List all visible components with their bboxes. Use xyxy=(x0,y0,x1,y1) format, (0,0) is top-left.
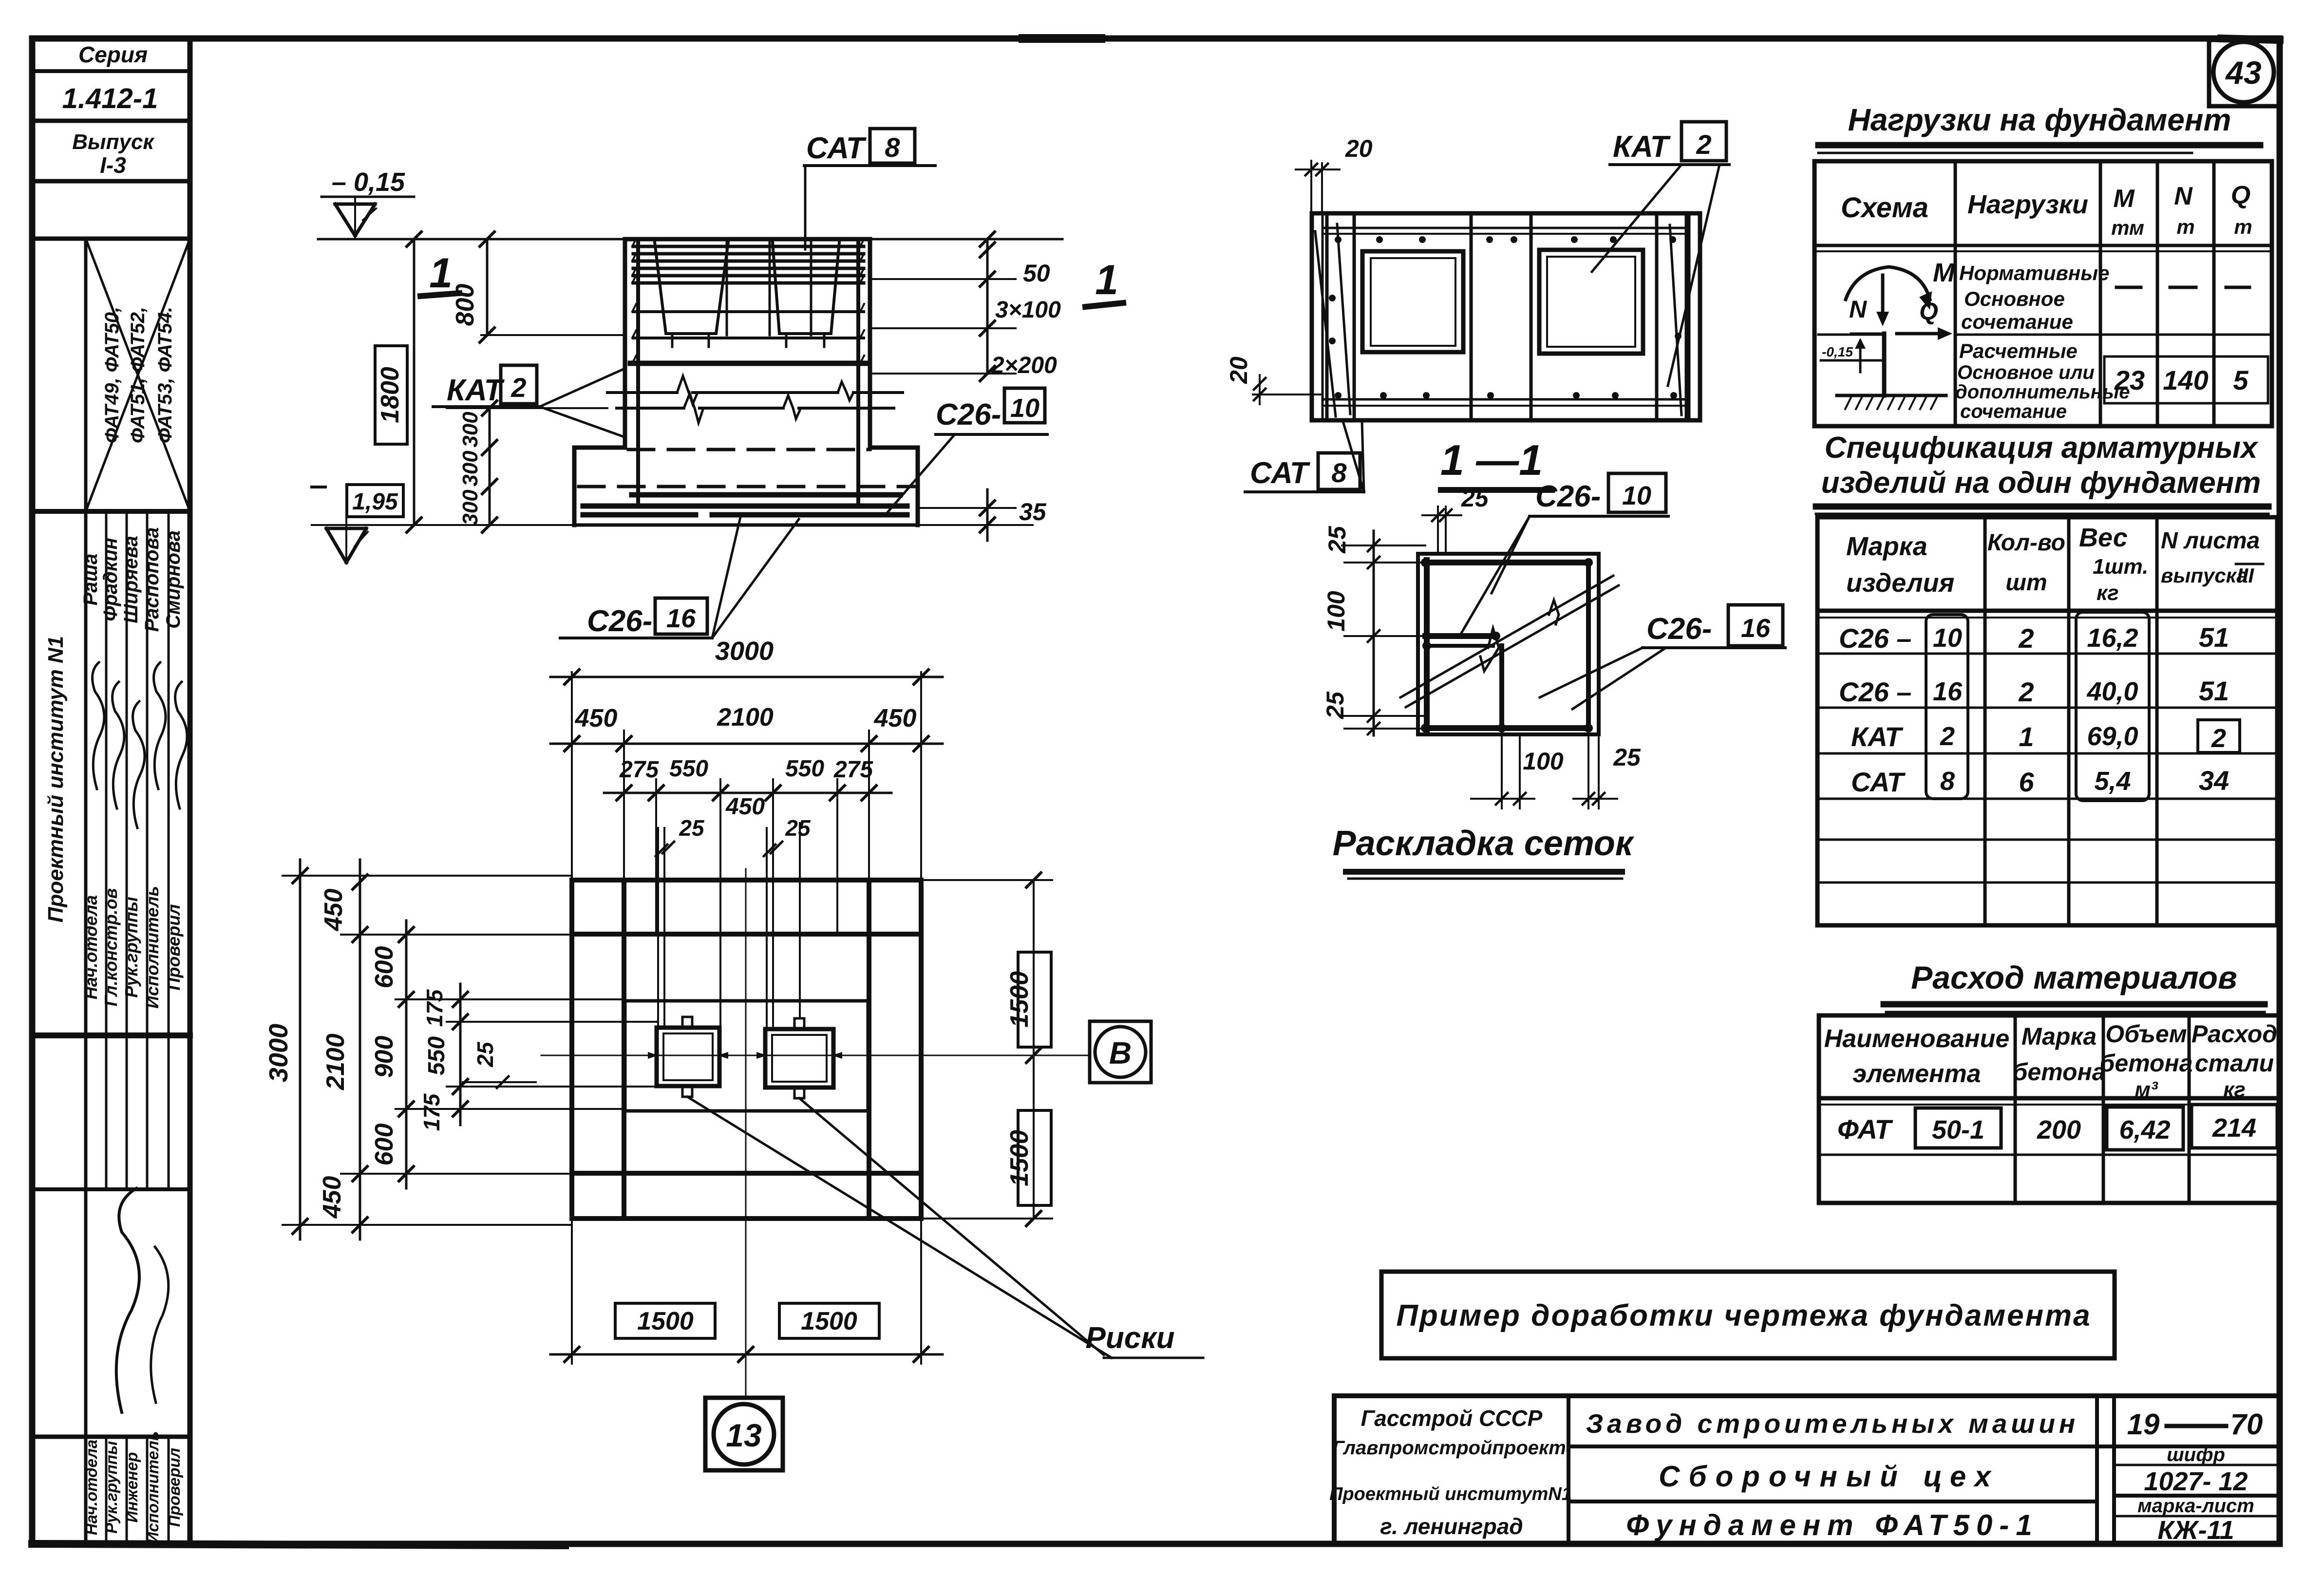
svg-text:1.412-1: 1.412-1 xyxy=(62,83,158,114)
svg-text:бетона: бетона xyxy=(2099,1050,2192,1077)
svg-text:Пример доработки чертежа фунда: Пример доработки чертежа фундамента xyxy=(1396,1299,2091,1332)
1-1 label KAT 2 xyxy=(1592,122,1729,386)
svg-text:Исполнитель: Исполнитель xyxy=(142,886,162,1009)
svg-text:214: 214 xyxy=(2212,1113,2256,1143)
detail left dims 25/100/25 xyxy=(1322,525,1427,735)
svg-text:I-3: I-3 xyxy=(100,152,126,178)
svg-text:1800: 1800 xyxy=(376,367,404,423)
left stamp strip xyxy=(32,38,190,1544)
svg-text:20: 20 xyxy=(1225,356,1252,384)
1-1 dim 20 top xyxy=(1296,135,1373,213)
foundation column outline xyxy=(625,239,870,448)
svg-text:1500: 1500 xyxy=(801,1307,857,1335)
svg-text:43: 43 xyxy=(2225,55,2261,91)
svg-text:5,4: 5,4 xyxy=(2094,767,2131,796)
detail label C26-10 xyxy=(1461,473,1668,633)
svg-text:51: 51 xyxy=(2199,622,2229,653)
svg-text:16: 16 xyxy=(666,604,696,633)
svg-text:10: 10 xyxy=(1010,394,1039,423)
spec row C26-10 xyxy=(1839,622,2229,654)
crossed-out mark list box xyxy=(86,239,190,511)
1-1 vertical bars xyxy=(1315,215,1686,419)
svg-text:марка-лист: марка-лист xyxy=(2137,1495,2254,1517)
materials table grid xyxy=(1819,1015,2280,1203)
svg-text:140: 140 xyxy=(2163,365,2208,395)
materials headers xyxy=(1824,1020,2277,1102)
mesh layout square xyxy=(1418,554,1599,734)
svg-text:25: 25 xyxy=(1613,744,1641,771)
svg-text:Распопова: Распопова xyxy=(141,527,163,632)
svg-text:С26 –: С26 – xyxy=(1839,623,1911,654)
svg-text:N: N xyxy=(1849,296,1867,323)
svg-text:8: 8 xyxy=(885,132,900,163)
svg-text:кг: кг xyxy=(2223,1078,2246,1102)
svg-text:1: 1 xyxy=(2019,721,2034,752)
svg-text:2: 2 xyxy=(510,372,526,403)
svg-text:Q: Q xyxy=(1919,298,1938,325)
svg-text:шифр: шифр xyxy=(2167,1444,2225,1465)
1-1 dim 20 left xyxy=(1225,356,1321,404)
svg-text:Исполнитель: Исполнитель xyxy=(144,1431,162,1544)
svg-text:800: 800 xyxy=(451,284,479,326)
svg-text:Марка: Марка xyxy=(1846,532,1927,561)
anchor bolt pockets (trapezoids) xyxy=(655,242,839,347)
svg-text:г. ленинград: г. ленинград xyxy=(1380,1514,1523,1539)
plan left pocket xyxy=(648,1017,728,1097)
svg-text:25: 25 xyxy=(472,1041,498,1068)
svg-text:Нач.отдела: Нач.отдела xyxy=(81,895,101,999)
section mark 1 (right) xyxy=(1085,257,1123,307)
svg-text:САТ: САТ xyxy=(1851,767,1906,797)
svg-text:М: М xyxy=(1933,258,1955,287)
dim 1800 xyxy=(375,232,421,532)
detail bottom dims 100 / 25 xyxy=(1471,734,1641,808)
plan left dims 600/900/600 xyxy=(370,920,414,1188)
spec row C26-16 xyxy=(1839,675,2229,707)
svg-text:2: 2 xyxy=(2211,724,2226,753)
svg-text:450: 450 xyxy=(318,1176,346,1219)
svg-text:1: 1 xyxy=(429,250,453,297)
title materials table xyxy=(1884,959,2265,1012)
svg-text:175: 175 xyxy=(422,989,447,1027)
svg-text:Выпуск: Выпуск xyxy=(72,130,155,154)
title 1-1 xyxy=(1440,436,1552,490)
svg-text:275: 275 xyxy=(619,757,659,783)
svg-text:35: 35 xyxy=(1019,498,1047,525)
svg-text:Спецификация арматурных: Спецификация арматурных xyxy=(1825,431,2259,465)
svg-text:3000: 3000 xyxy=(264,1024,293,1082)
axis marker B xyxy=(1090,1021,1151,1083)
plan outer 3000 square xyxy=(572,880,921,1219)
svg-text:16: 16 xyxy=(1741,614,1771,643)
note box primer xyxy=(1381,1272,2115,1358)
svg-text:20: 20 xyxy=(1345,135,1373,162)
svg-text:25: 25 xyxy=(785,815,811,841)
bottom mesh C26-16 bars xyxy=(583,495,907,515)
title block project names xyxy=(1586,1408,2079,1541)
svg-text:N листа: N листа xyxy=(2161,528,2260,554)
svg-text:1шт.: 1шт. xyxy=(2093,555,2148,579)
svg-text:450: 450 xyxy=(874,704,917,732)
svg-text:Сборочный цех: Сборочный цех xyxy=(1659,1460,2000,1493)
title loads table xyxy=(1818,102,2260,153)
svg-text:Рук.группы: Рук.группы xyxy=(121,897,141,998)
svg-text:10: 10 xyxy=(1622,481,1651,510)
svg-text:Объем: Объем xyxy=(2105,1020,2187,1048)
loads row normative xyxy=(1959,262,2249,333)
svg-text:300: 300 xyxy=(458,450,482,487)
right dims 50 / 3x100 / 2x200 / 35 xyxy=(870,232,1061,381)
label C26-16 (bottom) xyxy=(560,517,799,638)
svg-text:Проектный институт N1: Проектный институт N1 xyxy=(44,636,68,923)
plan top dim 3000 xyxy=(550,637,943,684)
mesh vertical wires xyxy=(727,242,811,335)
svg-text:175: 175 xyxy=(419,1093,444,1131)
svg-text:бетона: бетона xyxy=(2012,1058,2105,1086)
strip header texts xyxy=(62,42,158,178)
plan inner 2100 step lines xyxy=(572,880,921,1219)
svg-text:Рук.группы: Рук.группы xyxy=(102,1441,120,1534)
svg-text:N: N xyxy=(2174,182,2193,210)
svg-text:Раскладка сеток: Раскладка сеток xyxy=(1333,824,1635,863)
svg-text:69,0: 69,0 xyxy=(2087,722,2138,751)
plan left dims 450/2100/450 xyxy=(318,860,367,1239)
svg-text:2100: 2100 xyxy=(717,703,774,732)
svg-text:Расход: Расход xyxy=(2192,1020,2277,1048)
dim 800 xyxy=(451,232,625,342)
svg-text:50: 50 xyxy=(1023,260,1050,287)
svg-text:2: 2 xyxy=(1940,722,1955,751)
svg-text:ФАТ49, ФАТ50,: ФАТ49, ФАТ50, xyxy=(101,307,123,443)
svg-text:300: 300 xyxy=(458,489,482,525)
svg-text:25: 25 xyxy=(1323,525,1351,554)
plan left extension lines xyxy=(283,876,657,1225)
svg-text:Расход материалов: Расход материалов xyxy=(1911,959,2237,995)
svg-text:ФАТ53, ФАТ54.: ФАТ53, ФАТ54. xyxy=(154,307,176,443)
svg-text:элемента: элемента xyxy=(1852,1060,1981,1088)
plan left dims 175/550/175 xyxy=(419,984,468,1131)
svg-text:600: 600 xyxy=(370,1124,398,1166)
svg-text:ФАТ: ФАТ xyxy=(1837,1114,1893,1144)
svg-text:тм: тм xyxy=(2111,216,2144,239)
axis marker 13 xyxy=(705,1398,783,1470)
svg-text:С26-: С26- xyxy=(587,604,652,638)
dims 300x3 xyxy=(447,401,607,532)
svg-text:34: 34 xyxy=(2199,765,2229,796)
svg-text:8: 8 xyxy=(1331,457,1347,488)
svg-text:Гасстрой СССР: Гасстрой СССР xyxy=(1361,1406,1543,1431)
svg-text:40,0: 40,0 xyxy=(2086,677,2138,706)
detail label C26-16 xyxy=(1540,605,1785,709)
svg-text:КАТ: КАТ xyxy=(1851,721,1904,752)
svg-text:кг: кг xyxy=(2097,581,2119,605)
hidden dashed lines in footing xyxy=(579,450,915,487)
elevation mark -1,95 xyxy=(312,485,574,563)
svg-text:900: 900 xyxy=(370,1036,398,1078)
svg-text:КАТ: КАТ xyxy=(447,374,505,407)
svg-text:Гл.констр.ов: Гл.констр.ов xyxy=(101,888,121,1007)
plan left dim 3000 xyxy=(264,860,307,1239)
svg-text:сочетание: сочетание xyxy=(1960,401,2067,422)
loads row design xyxy=(1955,339,2268,422)
loads table grid xyxy=(1814,161,2272,426)
svg-text:КАТ: КАТ xyxy=(1613,130,1671,164)
sheet number 43 xyxy=(2209,40,2280,106)
svg-text:Марка: Марка xyxy=(2022,1023,2097,1050)
svg-text:25: 25 xyxy=(1461,485,1489,512)
svg-text:КЖ-11: КЖ-11 xyxy=(2157,1516,2234,1545)
svg-text:275: 275 xyxy=(833,757,873,783)
svg-text:изделий на один фундамент: изделий на один фундамент xyxy=(1821,466,2261,500)
KAT bar break lines xyxy=(607,376,903,423)
label KAT 2 xyxy=(433,365,625,437)
svg-text:стали: стали xyxy=(2195,1050,2274,1077)
svg-text:Наименование: Наименование xyxy=(1824,1025,2010,1053)
plan extension lines xyxy=(572,672,921,1029)
svg-text:200: 200 xyxy=(2037,1115,2081,1144)
dim 35 xyxy=(918,489,1047,541)
svg-text:51: 51 xyxy=(2199,675,2229,706)
title block org names xyxy=(1329,1406,1572,1539)
svg-text:Нач.отдела: Нач.отдела xyxy=(82,1440,100,1535)
svg-text:100: 100 xyxy=(1523,748,1564,775)
plan anchor template rect xyxy=(625,1001,868,1111)
section mark 1 (left) xyxy=(420,250,459,297)
svg-text:550: 550 xyxy=(669,756,708,782)
svg-text:3×100: 3×100 xyxy=(995,297,1061,323)
elevation mark -0,15 xyxy=(321,168,414,239)
svg-text:САТ: САТ xyxy=(806,131,867,165)
svg-text:550: 550 xyxy=(785,756,824,782)
label CAT 8 (top) xyxy=(804,129,935,249)
svg-text:М: М xyxy=(2113,185,2135,213)
riski leaders and label xyxy=(687,1097,1203,1358)
svg-text:1500: 1500 xyxy=(637,1307,694,1335)
svg-text:Расчетные: Расчетные xyxy=(1959,339,2078,362)
svg-text:Ширяева: Ширяева xyxy=(120,536,142,623)
1-1 mesh dots xyxy=(1329,236,1682,399)
svg-text:ФАТ51, ФАТ52,: ФАТ51, ФАТ52, xyxy=(127,307,149,443)
plan right boxed dims 1500 xyxy=(921,873,1052,1226)
spec row CAT 8 xyxy=(1851,765,2229,797)
svg-text:8: 8 xyxy=(1940,767,1955,796)
svg-text:С26 –: С26 – xyxy=(1839,676,1911,707)
materials row FAT 50-1 xyxy=(1837,1105,2277,1150)
svg-text:6: 6 xyxy=(2019,767,2034,797)
plan top dims 450/2100/450 xyxy=(550,703,943,751)
svg-text:1500: 1500 xyxy=(1005,1130,1034,1186)
svg-text:В: В xyxy=(1109,1035,1132,1070)
svg-text:16,2: 16,2 xyxy=(2087,623,2138,653)
svg-text:Проверил: Проверил xyxy=(165,1448,183,1527)
svg-text:1: 1 xyxy=(1095,257,1118,303)
svg-text:Основное: Основное xyxy=(1964,287,2065,310)
svg-text:450: 450 xyxy=(320,889,348,932)
svg-text:25: 25 xyxy=(1322,691,1349,719)
svg-text:Фундамент ФАТ50-1: Фундамент ФАТ50-1 xyxy=(1626,1509,2039,1541)
svg-text:16: 16 xyxy=(1933,677,1963,706)
svg-text:1027- 12: 1027- 12 xyxy=(2144,1467,2248,1496)
spec headers xyxy=(1846,523,2263,605)
title block grid xyxy=(1334,1396,2280,1544)
svg-text:Серия: Серия xyxy=(78,42,148,67)
svg-text:1,95: 1,95 xyxy=(352,489,398,515)
svg-text:-0,15: -0,15 xyxy=(1822,344,1853,359)
section view: ground line xyxy=(318,238,1062,241)
spec row KAT 2 xyxy=(1851,720,2240,753)
svg-text:2: 2 xyxy=(2018,676,2034,707)
svg-text:1500: 1500 xyxy=(1005,971,1034,1028)
CAT mesh horizontal bars xyxy=(630,246,867,363)
label C26-10 (right) xyxy=(888,388,1047,512)
svg-text:5: 5 xyxy=(2233,365,2248,395)
svg-text:III: III xyxy=(2237,564,2254,587)
svg-text:Нагрузки на фундамент: Нагрузки на фундамент xyxy=(1848,102,2231,137)
svg-text:Основное или: Основное или xyxy=(1957,362,2095,383)
svg-text:Инженер: Инженер xyxy=(123,1452,141,1523)
svg-text:Смирнова: Смирнова xyxy=(163,530,184,629)
svg-text:550: 550 xyxy=(424,1036,450,1075)
svg-text:САТ: САТ xyxy=(1250,456,1311,490)
plan top dims 275/550/550/275 and 450 xyxy=(604,756,891,820)
view 1-1 outer outline xyxy=(1312,213,1700,420)
svg-text:450: 450 xyxy=(575,704,618,732)
svg-text:Кол-во: Кол-во xyxy=(1987,530,2065,556)
svg-text:С26-: С26- xyxy=(1646,612,1712,646)
svg-text:С26-: С26- xyxy=(936,398,1001,432)
loads schema sketch xyxy=(1821,258,1955,409)
plan right pocket xyxy=(756,1018,842,1098)
loads table headers xyxy=(1841,181,2252,239)
svg-text:т: т xyxy=(2176,215,2194,238)
svg-text:600: 600 xyxy=(370,946,398,989)
title block codes xyxy=(2127,1408,2263,1545)
svg-text:сочетание: сочетание xyxy=(1961,310,2073,333)
1-1 label CAT 8 xyxy=(1245,420,1364,492)
stamp signature columns xyxy=(44,511,187,1544)
svg-text:25: 25 xyxy=(679,815,705,841)
plan centerlines xyxy=(541,869,1090,1397)
lower stamp roles xyxy=(82,1188,183,1543)
svg-text:Фрадкин: Фрадкин xyxy=(100,538,121,621)
svg-text:изделия: изделия xyxy=(1846,568,1954,598)
svg-text:Завод строительных машин: Завод строительных машин xyxy=(1586,1408,2079,1439)
spec mark boxes xyxy=(1926,612,2149,801)
svg-text:Раша: Раша xyxy=(80,554,101,606)
svg-text:Главпромстройпроект: Главпромстройпроект xyxy=(1332,1437,1566,1459)
svg-text:70: 70 xyxy=(2230,1408,2263,1441)
svg-text:19: 19 xyxy=(2127,1408,2160,1441)
svg-text:м³: м³ xyxy=(2135,1078,2158,1102)
svg-text:Проверил: Проверил xyxy=(164,904,184,990)
svg-text:100: 100 xyxy=(1323,591,1350,632)
svg-text:450: 450 xyxy=(725,794,765,820)
svg-text:Проектный институтN1: Проектный институтN1 xyxy=(1329,1484,1572,1504)
svg-text:2: 2 xyxy=(2018,623,2034,654)
plan top dims 25/25 xyxy=(656,815,811,856)
svg-text:300: 300 xyxy=(458,412,482,448)
detail top dim 25 xyxy=(1422,485,1489,554)
svg-text:т: т xyxy=(2234,215,2252,238)
svg-text:Q: Q xyxy=(2231,181,2250,209)
svg-text:Схема: Схема xyxy=(1841,192,1928,224)
svg-text:выпуска: выпуска xyxy=(2161,564,2248,587)
plan dim 25 small xyxy=(463,1041,536,1088)
svg-text:2: 2 xyxy=(1696,129,1711,160)
vertical rebar bars xyxy=(632,239,864,502)
svg-text:6,42: 6,42 xyxy=(2119,1115,2170,1144)
title spec table xyxy=(1816,431,2268,514)
plan bottom dims 1500/1500 xyxy=(550,1219,943,1364)
footing outline xyxy=(574,448,918,525)
mesh C26 bars in detail xyxy=(1421,558,1593,732)
svg-text:13: 13 xyxy=(726,1417,761,1453)
svg-text:Нагрузки: Нагрузки xyxy=(1967,190,2088,219)
svg-text:3000: 3000 xyxy=(715,637,774,666)
svg-text:Вес: Вес xyxy=(2079,523,2128,552)
title Raskladka setok xyxy=(1333,824,1635,879)
svg-text:– 0,15: – 0,15 xyxy=(332,168,405,197)
svg-text:Нормативные: Нормативные xyxy=(1959,262,2109,284)
svg-text:шт: шт xyxy=(2005,570,2047,596)
svg-text:23: 23 xyxy=(2114,365,2145,395)
svg-text:С26-: С26- xyxy=(1535,480,1601,513)
1-1 anchor pocket openings xyxy=(1362,250,1643,354)
svg-text:2100: 2100 xyxy=(321,1033,350,1090)
svg-text:1 —1: 1 —1 xyxy=(1440,436,1543,484)
svg-text:Риски: Риски xyxy=(1085,1321,1174,1355)
svg-text:50-1: 50-1 xyxy=(1932,1115,1984,1144)
svg-text:10: 10 xyxy=(1933,623,1962,653)
detail break band (diagonal) xyxy=(1400,576,1619,707)
svg-text:2×200: 2×200 xyxy=(991,353,1057,378)
spec table grid xyxy=(1817,517,2277,925)
